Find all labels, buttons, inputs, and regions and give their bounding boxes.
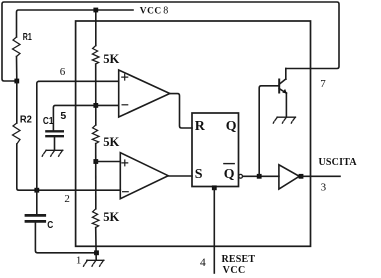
wire comparator 2 plus input [96, 161, 121, 163]
ground symbol transistor [273, 117, 295, 123]
node FF bottom / reset junction dot [212, 185, 217, 190]
wire outer loop R1/R2 junction to pin 7 (left, top, right) [2, 2, 339, 81]
wire 5K3 to ground [95, 228, 98, 261]
label R [195, 119, 206, 134]
label C1 [43, 116, 54, 127]
label VCC 8 [140, 6, 168, 17]
label Q [226, 118, 237, 133]
svg-text:6: 6 [60, 66, 66, 78]
capacitor C1 [46, 131, 62, 150]
label 5K second [103, 135, 119, 149]
svg-text:Q: Q [224, 166, 235, 181]
label 5 [60, 110, 66, 122]
resistor 5K second [92, 125, 99, 144]
wire R2 bottom to pin2 line [17, 144, 37, 190]
svg-text:Q: Q [226, 118, 237, 133]
ground symbol pin 1 [84, 260, 104, 266]
wire USCITA output [301, 175, 340, 177]
node comparator2 plus junction dot [93, 159, 98, 164]
bubble on Q-bar output [239, 174, 243, 178]
resistor 5K first [92, 46, 99, 65]
svg-text:5: 5 [60, 110, 66, 122]
label 3 [321, 182, 327, 194]
wire R1 bottom to junction [16, 57, 18, 82]
label 2 [64, 193, 70, 205]
svg-text:8: 8 [163, 6, 168, 17]
label comparator1 plus [122, 74, 128, 80]
node VCC/5K junction dot [93, 8, 98, 13]
label R2 [20, 114, 32, 126]
label VCC bottom [223, 265, 246, 276]
label USCITA [319, 157, 358, 168]
op-amp comparator 2 [120, 153, 168, 199]
capacitor C [26, 190, 97, 253]
svg-text:VCC: VCC [223, 265, 246, 276]
node ground junction dot [94, 250, 99, 255]
svg-text:4: 4 [200, 257, 206, 269]
wire 5K1 to 5K2 [95, 64, 97, 125]
wire 5K2 to 5K3 [95, 144, 97, 209]
wire reset pin 4 vertical [213, 188, 215, 273]
svg-text:C1: C1 [43, 116, 54, 127]
wire pins 2-6 tie vertical [37, 81, 39, 190]
ground symbol C1 [42, 150, 63, 156]
label 7 [320, 78, 326, 90]
wire pin 5 / control line [53, 105, 118, 130]
resistor R1 [13, 37, 21, 57]
label 1 [76, 255, 82, 267]
wire comparator1 output to FF R input [170, 94, 192, 128]
label 6 [60, 66, 66, 78]
svg-text:1: 1 [76, 255, 82, 267]
svg-text:7: 7 [320, 78, 326, 90]
chip border rectangle [76, 21, 311, 246]
label RESET [222, 254, 256, 265]
label 4 [200, 257, 206, 269]
node R1/R2 junction dot [14, 79, 19, 84]
node buffer output junction dot [299, 174, 304, 179]
output buffer triangle [279, 165, 299, 189]
svg-text:5K: 5K [103, 135, 119, 149]
svg-text:VCC: VCC [140, 7, 162, 17]
label C [47, 219, 53, 231]
svg-text:R: R [195, 119, 206, 134]
node comparator1 minus / pin5 junction dot [93, 103, 98, 108]
flip-flop box [192, 113, 239, 187]
label 5K third [103, 210, 119, 224]
wire Q-bar to buffer [243, 175, 279, 177]
svg-text:USCITA: USCITA [319, 157, 358, 168]
label Q-bar [224, 166, 235, 181]
resistor R2 [13, 81, 21, 144]
svg-text:R1: R1 [23, 32, 32, 43]
svg-text:3: 3 [321, 182, 327, 194]
svg-text:2: 2 [64, 193, 70, 205]
wire pin 2 line to comparator 2 minus [37, 189, 121, 191]
wire comparator2 output to FF S input [168, 175, 192, 177]
resistor 5K third [92, 209, 99, 228]
wire 5K chain top lead [95, 10, 97, 46]
label R1 [23, 32, 32, 43]
wire VCC top line [17, 10, 134, 37]
svg-text:RESET: RESET [222, 254, 256, 265]
label comparator2 minus [123, 191, 129, 193]
svg-text:C: C [47, 219, 53, 231]
transistor Q1 [279, 69, 286, 117]
svg-text:5K: 5K [103, 52, 119, 66]
svg-text:R2: R2 [20, 114, 32, 126]
node pin2/C junction dot [34, 188, 39, 193]
label comparator2 plus [122, 160, 128, 166]
wire pin 6 line to comparator 1 plus [39, 80, 119, 82]
svg-text:S: S [195, 167, 203, 182]
op-amp comparator 1 [119, 70, 170, 117]
wire base branch vertical [259, 86, 278, 177]
svg-text:5K: 5K [103, 210, 119, 224]
transistor emitter arrowhead [282, 89, 287, 94]
label comparator1 minus [122, 104, 128, 106]
label 5K first [103, 52, 119, 66]
node base branch junction dot [257, 174, 262, 179]
label S [195, 167, 203, 182]
